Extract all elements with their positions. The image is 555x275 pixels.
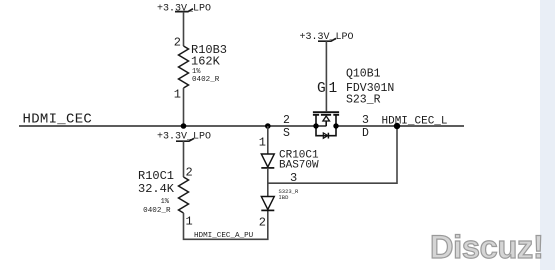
svg-text:1%: 1%	[192, 68, 201, 76]
svg-text:1: 1	[329, 81, 338, 97]
resistor R10B3	[179, 46, 189, 88]
svg-text:0402_R: 0402_R	[143, 207, 171, 215]
gate plate	[313, 111, 339, 113]
svg-text:1: 1	[186, 215, 193, 229]
channel segments	[313, 114, 319, 116]
wire diode chain top from main line	[267, 126, 269, 154]
pin G 1 labels	[317, 81, 337, 97]
node junction source	[313, 123, 318, 128]
bulk arrow	[323, 116, 330, 121]
svg-text:G: G	[317, 81, 326, 97]
svg-text:2: 2	[259, 216, 266, 230]
svg-text:1: 1	[174, 88, 181, 102]
svg-text:Q10B1: Q10B1	[346, 68, 381, 81]
body diode loop	[316, 126, 336, 136]
transistor Q10B1 MOSFET symbol	[313, 112, 339, 138]
svg-text:S23_R: S23_R	[346, 94, 381, 107]
node junction R10B3/main	[181, 123, 187, 129]
diode CR10C1 top half	[261, 154, 274, 168]
wire R10B3 pin1 to main line	[183, 88, 185, 126]
node junction drain	[333, 123, 338, 128]
wire main line right segment	[336, 125, 464, 127]
power symbol +3.3V_LPO (middle, feeds R10C1)	[157, 132, 211, 143]
pin 2 S labels	[283, 114, 290, 140]
svg-text:HDMI_CEC_A_PU: HDMI_CEC_A_PU	[194, 232, 254, 240]
wire R10C1 pin1 down and right to diode chain bottom	[184, 211, 268, 240]
svg-text:BAS70W: BAS70W	[279, 160, 319, 172]
wire gate	[325, 41, 327, 111]
svg-text:1%: 1%	[161, 198, 170, 206]
resistor R10C1	[179, 177, 189, 213]
Q10B1 labels	[346, 68, 394, 107]
power symbol +3.3V_LPO (top, feeds R10B3)	[157, 4, 211, 15]
R10B3 value labels	[191, 43, 227, 84]
svg-text:R10C1: R10C1	[138, 169, 174, 183]
svg-text:S: S	[283, 127, 290, 140]
pin 3 D labels	[362, 114, 369, 140]
svg-text:32.4K: 32.4K	[138, 182, 175, 196]
power symbol +3.3V_LPO (top right, feeds Q10B1 gate)	[299, 32, 353, 43]
diode CR10C1 bottom half	[261, 197, 274, 211]
svg-text:162K: 162K	[191, 55, 221, 69]
svg-text:2: 2	[186, 166, 193, 180]
right edge light blue band	[540, 0, 555, 270]
svg-text:2: 2	[174, 36, 181, 50]
node junction HDMI_CEC_L branch	[394, 123, 400, 129]
svg-text:D: D	[362, 127, 369, 140]
wire power A to R10B3 pin2	[183, 12, 185, 46]
svg-text:3: 3	[362, 114, 369, 127]
small package text	[279, 188, 300, 201]
source stub	[315, 115, 317, 126]
svg-text:IBD: IBD	[279, 194, 290, 201]
node junction diode chain/main	[265, 123, 271, 129]
wire pin3 branch to right	[268, 126, 397, 183]
svg-text:2: 2	[283, 114, 290, 127]
svg-text:Discuz!: Discuz!	[430, 229, 543, 265]
svg-text:0402_R: 0402_R	[192, 76, 220, 84]
R10C1 value labels	[138, 169, 175, 215]
wire main HDMI_CEC line left segment	[19, 125, 326, 127]
drain stub	[335, 115, 337, 126]
CR10C1 labels	[279, 150, 319, 172]
wire power B to R10C1 pin2	[183, 141, 185, 177]
svg-text:HDMI_CEC_L: HDMI_CEC_L	[382, 115, 448, 127]
svg-text:1: 1	[259, 136, 266, 150]
wire between diodes	[267, 168, 269, 197]
